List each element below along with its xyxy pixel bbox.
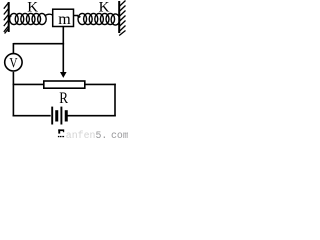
svg-text:K: K [27, 0, 38, 16]
svg-text:m: m [58, 11, 71, 28]
svg-text:R: R [59, 90, 68, 107]
svg-text:V: V [9, 55, 18, 71]
svg-text:K: K [99, 0, 110, 16]
